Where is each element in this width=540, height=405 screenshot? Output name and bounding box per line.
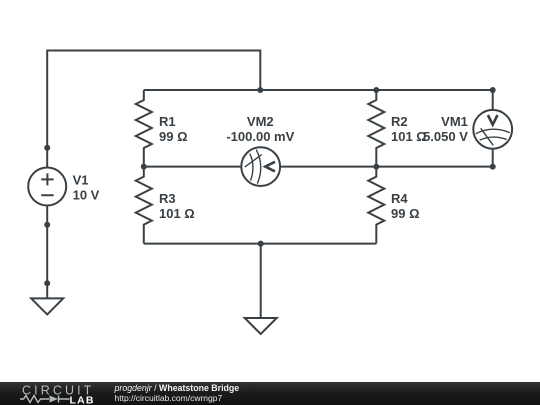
svg-text:101 Ω: 101 Ω	[159, 206, 195, 221]
resistor R2	[368, 90, 384, 167]
node: R2/R4 middle junction	[373, 164, 379, 170]
svg-text:VM1: VM1	[441, 114, 468, 129]
ground (left, below V1)	[31, 283, 63, 314]
svg-text:5.050 V: 5.050 V	[423, 129, 468, 144]
resistor R3	[136, 167, 152, 244]
svg-text:10 V: 10 V	[73, 187, 100, 202]
svg-text:LAB: LAB	[70, 395, 95, 405]
svg-text:R3: R3	[159, 191, 176, 206]
node: R2 top junction	[373, 87, 379, 93]
voltmeter VM2 (rotated)	[241, 147, 280, 186]
ground (center, below bottom rail)	[245, 244, 277, 334]
svg-text:R2: R2	[391, 114, 408, 129]
wire: middle rail right of VM2	[280, 166, 493, 168]
resistor R1	[136, 90, 152, 167]
voltage source V1	[28, 168, 66, 206]
svg-text:-100.00 mV: -100.00 mV	[226, 129, 294, 144]
labels	[73, 114, 469, 221]
svg-text:R1: R1	[159, 114, 176, 129]
wire: top rail	[144, 89, 493, 91]
wire: V1 bottom to ground	[46, 206, 48, 284]
node: feed joins top rail	[257, 87, 263, 93]
svg-text:99 Ω: 99 Ω	[159, 129, 188, 144]
CircuitLab logo	[0, 382, 110, 405]
node: ground junction on bottom rail	[258, 241, 264, 247]
node: V1 top terminal	[44, 145, 50, 151]
node: VM1 bottom terminal	[490, 164, 496, 170]
footer text	[115, 383, 240, 404]
svg-text:V1: V1	[73, 172, 89, 187]
wire: middle rail left of VM2	[144, 166, 241, 168]
node: VM1 top terminal	[490, 87, 496, 93]
resistor R4	[368, 167, 384, 244]
node: V1 bottom terminal	[44, 222, 50, 228]
wire: V1 top feed to top rail	[47, 51, 260, 168]
wire: bottom rail	[144, 243, 376, 245]
voltmeter VM1	[473, 90, 512, 167]
svg-text:R4: R4	[391, 191, 408, 206]
svg-text:99 Ω: 99 Ω	[391, 206, 420, 221]
node: left ground terminal	[44, 280, 50, 286]
node: R1/R3 middle junction	[141, 164, 147, 170]
svg-text:101 Ω: 101 Ω	[391, 129, 427, 144]
footer bar	[0, 382, 540, 405]
svg-text:VM2: VM2	[247, 114, 274, 129]
